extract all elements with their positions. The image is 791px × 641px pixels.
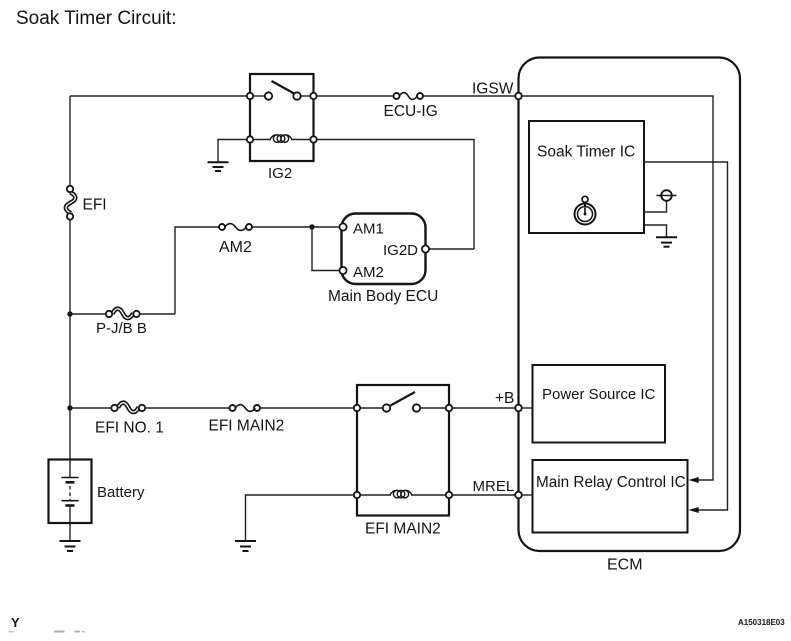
pin AM1 [339, 223, 346, 230]
IC Main Relay Control IC box [533, 460, 688, 533]
relay IG2 switch terminals [247, 93, 253, 99]
ground (soak timer internal) [656, 237, 677, 246]
relay EFI MAIN2 switch terminals [354, 405, 360, 411]
svg-text:+B: +B [495, 390, 514, 407]
wire +B terminal to Power Source IC [522, 407, 533, 409]
svg-text:EFI MAIN2: EFI MAIN2 [209, 418, 285, 435]
wire ECU-IG fuse to ECM [424, 95, 516, 97]
fuse AM2 [219, 224, 252, 231]
relay IG2 coil terminals [247, 136, 253, 142]
ground (EFI MAIN2 coil) [235, 541, 256, 551]
svg-text:IG2D: IG2D [383, 242, 418, 259]
wire left vertical (battery feed lower) [69, 219, 71, 461]
wire riser from P-J/B B row to AM2 fuse row [175, 227, 219, 314]
IC Soak Timer IC box [529, 121, 644, 233]
junction P-J/B B tap [67, 311, 72, 316]
fuse P-J/B B [106, 309, 140, 318]
junction AM1/AM2 branch [309, 224, 314, 229]
relay EFI MAIN2 switch [360, 392, 446, 412]
faint cropped marks at bottom [9, 631, 86, 633]
ground (IG2 relay coil) [208, 162, 229, 171]
svg-text:IGSW: IGSW [472, 81, 514, 98]
wire IG2 coil row to IG2D riser [317, 140, 475, 250]
wire EFI MAIN2 fuse to relay [261, 407, 358, 409]
relay EFI MAIN2 coil terminals [354, 492, 360, 498]
wire soak timer to aux terminal [644, 200, 667, 212]
wire EFI NO.1 to EFI MAIN2 fuse [145, 407, 229, 409]
arrow into Main Relay Control IC (from soak timer) [689, 507, 699, 513]
svg-text:IG2: IG2 [268, 165, 292, 182]
wire relay coil to ground [246, 495, 355, 541]
fuse EFI MAIN2 [230, 405, 261, 412]
fuse EFI [66, 186, 75, 220]
fuse EFI NO. 1 [111, 403, 145, 412]
svg-text:AM1: AM1 [353, 221, 384, 238]
wire top feed horizontal [70, 95, 250, 97]
pin IG2D [422, 245, 429, 252]
wire branch to AM2 pin [312, 227, 339, 271]
wire left vertical (battery feed upper) [69, 96, 71, 186]
svg-text:AM2: AM2 [219, 239, 252, 256]
relay IG2 coil [253, 135, 311, 143]
wire IGSW inside ECM to Main Relay Control IC [522, 96, 713, 480]
ground (battery) [60, 541, 81, 551]
wire to EFI NO. 1 fuse [70, 407, 112, 409]
battery B1 box [49, 460, 92, 524]
svg-text:P-J/B B: P-J/B B [96, 320, 147, 337]
wire riser to IG2D pin [429, 248, 474, 250]
wire relay coil to MREL terminal [452, 494, 515, 496]
wire IG2 coil to ground [218, 140, 247, 163]
IC Power Source IC box [533, 365, 666, 443]
svg-text:A150318E03: A150318E03 [738, 618, 785, 627]
svg-text:AM2: AM2 [353, 264, 384, 281]
junction main +B row [67, 405, 72, 410]
wire relay switch to +B terminal [452, 407, 515, 409]
svg-text:Battery: Battery [97, 484, 145, 501]
fuse ECU-IG [394, 93, 424, 100]
svg-text:Main Relay Control IC: Main Relay Control IC [536, 474, 686, 491]
battery plates [62, 461, 79, 541]
wire AM2 fuse to AM1 pin [253, 226, 340, 228]
pin AM2 [339, 267, 346, 274]
terminal (soak timer aux output) [657, 190, 677, 201]
wire IG2 to ECU-IG fuse [317, 95, 394, 97]
relay IG2 switch [253, 81, 311, 100]
wire soak timer to internal ground [644, 225, 667, 238]
svg-text:EFI MAIN2: EFI MAIN2 [365, 521, 441, 538]
svg-text:MREL: MREL [473, 478, 515, 495]
svg-text:Main Body ECU: Main Body ECU [328, 288, 438, 305]
timer icon [575, 196, 596, 224]
wire soak timer output to Main Relay Control IC [644, 162, 728, 510]
svg-text:Soak Timer IC: Soak Timer IC [537, 144, 635, 161]
arrow into Main Relay Control IC (from IGSW) [689, 477, 699, 483]
terminal MREL on ECM [515, 492, 522, 499]
wire MREL terminal to Main Relay Control IC [522, 494, 533, 496]
ECM enclosure [519, 58, 741, 552]
svg-text:Soak Timer Circuit:: Soak Timer Circuit: [16, 8, 176, 29]
relay IG2 box [250, 74, 314, 161]
svg-text:ECU-IG: ECU-IG [384, 103, 438, 120]
relay EFI MAIN2 box [357, 385, 449, 516]
svg-text:EFI: EFI [83, 197, 107, 214]
terminal IGSW on ECM [515, 93, 522, 100]
svg-text:ECM: ECM [607, 557, 643, 574]
Main Body ECU box [342, 214, 426, 285]
svg-text:Y: Y [11, 615, 20, 630]
wire P-J/B B fuse to riser [140, 313, 176, 315]
svg-text:EFI NO. 1: EFI NO. 1 [95, 420, 164, 437]
wire tap to P-J/B B fuse [70, 313, 106, 315]
svg-text:Power Source IC: Power Source IC [542, 386, 656, 403]
terminal +B on ECM [515, 405, 522, 412]
relay EFI MAIN2 coil [360, 490, 446, 498]
